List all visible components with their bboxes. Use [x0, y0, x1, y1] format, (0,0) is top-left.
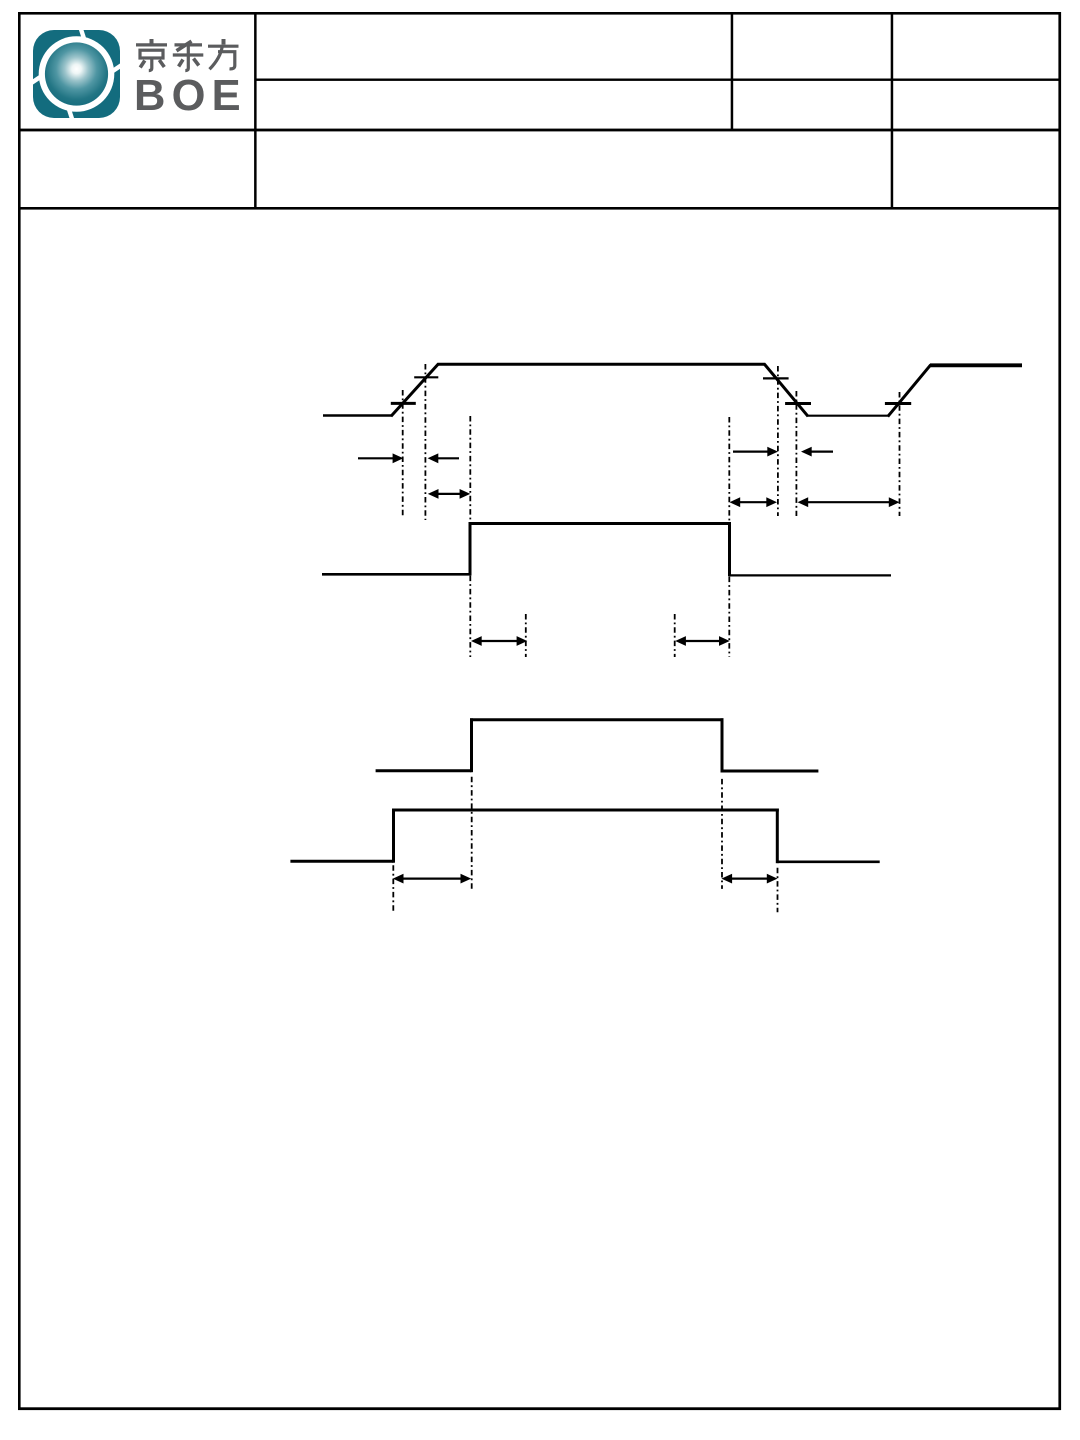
BOE logo sphere	[45, 42, 108, 105]
waveform3 rising edge	[470, 718, 473, 772]
dash guide D3 x470	[469, 416, 471, 657]
arrow wf4 right line	[731, 877, 768, 879]
arrow row2 mid line	[738, 501, 769, 503]
waveform1 high	[438, 363, 766, 366]
arrow wf4 left line	[402, 877, 462, 879]
header vertical divider x255	[254, 12, 257, 208]
waveform1 low-left	[323, 414, 392, 417]
arrow row2 left line	[436, 493, 462, 495]
waveform4 rising edge	[392, 809, 395, 863]
arrow wf4 left head R	[461, 874, 472, 884]
waveform2 low-right	[730, 574, 892, 576]
waveform2 rising edge	[469, 522, 472, 575]
dash guide D6 x796	[795, 391, 797, 516]
dash guide D11 x675	[674, 614, 676, 657]
arrow row1 left a head	[393, 453, 404, 463]
header row3 divider (content box top)	[18, 207, 1061, 210]
dash guide D13 x722	[721, 779, 723, 889]
tick VIH fall	[763, 377, 789, 379]
arrow row2 mid head R	[766, 497, 777, 507]
dash guide D5 x778	[777, 366, 779, 516]
header vertical divider x892	[891, 12, 894, 208]
arrow row2 right head R	[889, 497, 900, 507]
arrow row2 left head L	[428, 489, 439, 499]
waveform1 rising edge 2	[888, 365, 931, 417]
arrow row1 right b head	[801, 447, 812, 457]
arrow row1 left b line	[437, 457, 459, 459]
dash guide D2 x425	[424, 364, 426, 520]
waveform1 low-right	[807, 415, 889, 417]
waveform1 falling edge	[764, 364, 808, 416]
arrow wf2 left line	[480, 640, 518, 642]
arrow row2 mid head L	[730, 497, 741, 507]
waveform4 low-right	[777, 860, 879, 863]
waveform1 high right	[930, 363, 1022, 367]
arrow row2 left head R	[460, 489, 471, 499]
logo text dong	[173, 41, 204, 70]
tick VIL fall	[785, 402, 811, 405]
waveform2 falling edge	[728, 522, 731, 576]
arrow row1 left a line	[358, 457, 394, 459]
arrow wf2 left head L	[471, 636, 482, 646]
waveform3 low-right	[722, 770, 818, 773]
logo text fang	[208, 39, 239, 69]
BOE logo slit top	[80, 26, 85, 40]
svg-text:BOE: BOE	[134, 72, 247, 120]
arrow wf2 right line	[684, 640, 721, 642]
arrow wf2 left head R	[517, 636, 528, 646]
header row2 divider	[18, 129, 1061, 132]
waveform4 low-left	[290, 860, 393, 863]
arrow row1 right b line	[811, 451, 834, 453]
arrow wf4 right head L	[721, 874, 732, 884]
header vertical divider x732	[731, 12, 734, 130]
BOE logo ring gap	[39, 36, 115, 112]
dash guide D7 x900	[899, 392, 901, 516]
waveform4 high	[392, 809, 779, 812]
arrow row2 right line	[806, 501, 891, 503]
page left border	[18, 12, 21, 1410]
dash guide D1 x403	[402, 390, 404, 516]
BOE logo slit bottom	[69, 109, 74, 123]
page right border	[1058, 12, 1061, 1410]
logo text jing	[136, 39, 167, 71]
tick VIH rise1	[414, 376, 438, 378]
waveform2 low-left	[322, 573, 470, 576]
waveform4 falling edge	[776, 809, 779, 864]
waveform3 falling edge	[721, 718, 724, 772]
dash guide D4 x729	[728, 417, 730, 657]
arrow row1 left b head	[428, 453, 439, 463]
waveform2 high	[469, 522, 732, 525]
waveform3 low-left	[376, 769, 472, 772]
BOE logo slit right	[112, 65, 123, 72]
arrow row2 right head L	[798, 497, 809, 507]
waveform1 rising edge 1	[391, 364, 439, 417]
dash guide D12 x472	[471, 777, 473, 889]
waveform3 high	[470, 718, 724, 721]
header top border	[18, 12, 1061, 15]
BOE logo slit left	[31, 77, 42, 84]
page bottom border	[18, 1407, 1061, 1410]
tick VIL rise1	[391, 402, 416, 405]
BOE logo petals	[33, 30, 120, 118]
arrow wf4 left head L	[393, 874, 404, 884]
header row1 divider	[255, 79, 1059, 81]
dash guide D10 x526	[525, 614, 527, 657]
dash guide D14 x393	[392, 865, 394, 911]
arrow wf2 right head R	[719, 636, 730, 646]
arrow row1 right a line	[733, 451, 769, 453]
arrow wf4 right head R	[767, 874, 778, 884]
tick VIL rise2	[885, 402, 911, 405]
arrow wf2 right head L	[675, 636, 686, 646]
arrow row1 right a head	[767, 447, 778, 457]
dash guide D15 x778	[777, 868, 779, 912]
